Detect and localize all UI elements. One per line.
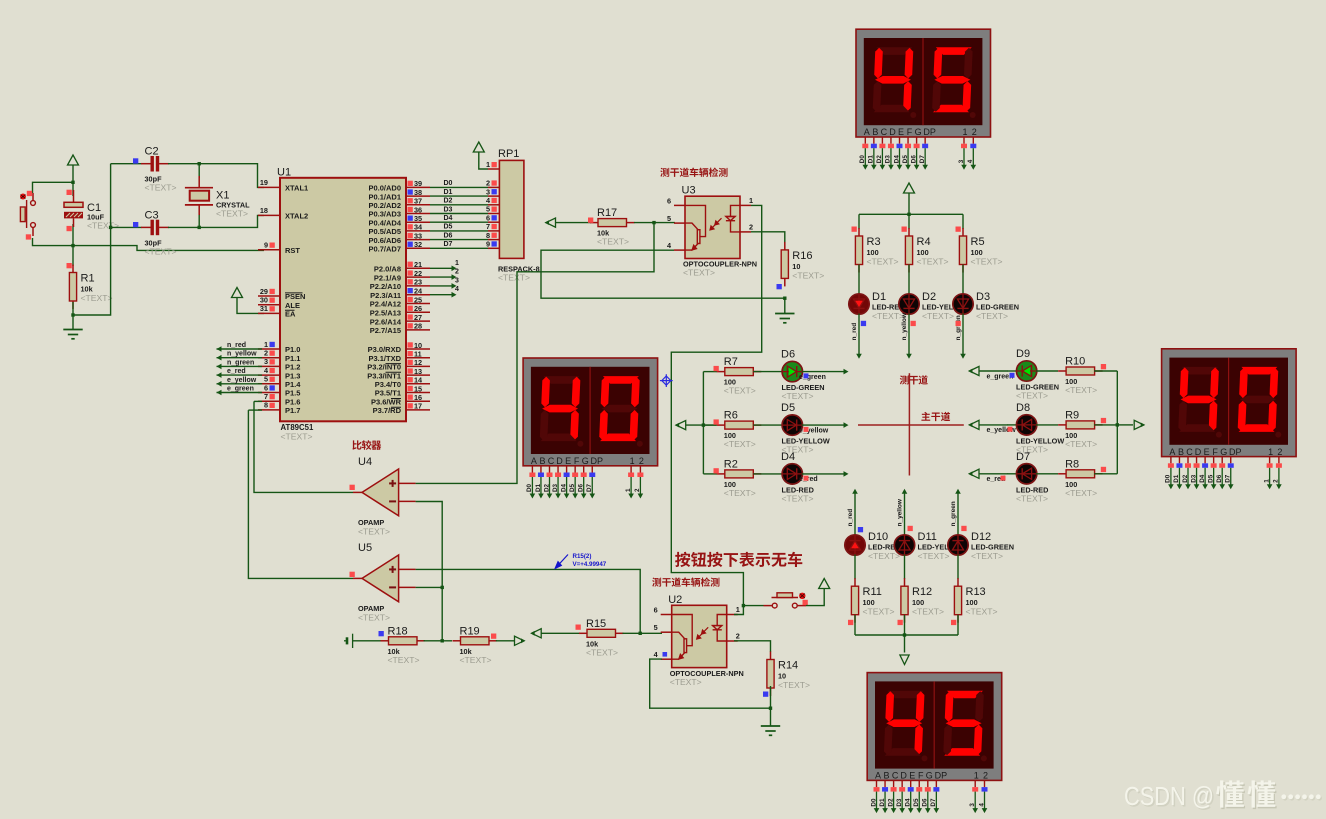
svg-text:2: 2 xyxy=(634,488,641,492)
wire U3 pin4 to ground rail xyxy=(541,250,785,313)
wire R6 to D5 xyxy=(753,424,783,426)
svg-text:2: 2 xyxy=(1273,479,1280,483)
svg-text:1: 1 xyxy=(749,196,753,205)
svg-text:<TEXT>: <TEXT> xyxy=(216,209,248,219)
svg-text:D4: D4 xyxy=(781,451,795,463)
marker square R13 xyxy=(951,620,956,625)
wire R5 to D3 xyxy=(962,265,964,296)
wires P2.0-P2.3 digit select 1-4 xyxy=(430,267,452,269)
svg-text:F: F xyxy=(907,127,913,137)
svg-text:n_red: n_red xyxy=(847,509,854,527)
marker square R16 xyxy=(777,284,782,289)
wire cell to R18 xyxy=(353,640,381,642)
bus wires U1 P0 to RP1 (D0-D7) xyxy=(430,186,488,188)
svg-text:24: 24 xyxy=(414,287,423,296)
svg-text:D2: D2 xyxy=(444,198,453,205)
ground arrow (south rail) xyxy=(904,635,906,653)
svg-text:D1: D1 xyxy=(444,189,453,196)
svg-text:R15: R15 xyxy=(586,618,606,630)
inter-sheet arrow (left) for R15 xyxy=(532,629,542,638)
svg-text:D2: D2 xyxy=(543,483,550,492)
svg-text:25: 25 xyxy=(414,295,422,304)
svg-text:R8: R8 xyxy=(1065,458,1079,470)
svg-text:n_yellow: n_yellow xyxy=(897,498,904,526)
svg-text:e_green: e_green xyxy=(227,386,254,393)
wire D3 to net arrow n_green xyxy=(962,314,964,355)
svg-text:D4: D4 xyxy=(560,483,567,492)
svg-text:R7: R7 xyxy=(724,356,738,368)
resistor R6 100 xyxy=(717,424,725,426)
marker square R8 xyxy=(1101,467,1106,472)
svg-text:2: 2 xyxy=(749,222,753,231)
svg-text:XTAL1: XTAL1 xyxy=(285,184,308,193)
wire U4- to U5- to R18/R19 node xyxy=(416,502,443,641)
wire bus to R6 xyxy=(703,424,717,426)
wire R14 bottom to rail xyxy=(770,686,772,708)
capacitor C2 30pF xyxy=(111,163,142,165)
LED D2 LED-YELLOW xyxy=(899,294,919,314)
svg-text:17: 17 xyxy=(414,402,422,411)
svg-text:1: 1 xyxy=(962,127,967,137)
wire D12 to R13 xyxy=(957,555,959,580)
wire R2 to D4 xyxy=(753,473,783,475)
svg-text:<TEXT>: <TEXT> xyxy=(971,257,1003,267)
svg-text:P0.4/AD4: P0.4/AD4 xyxy=(368,218,401,227)
svg-text:<TEXT>: <TEXT> xyxy=(782,391,814,401)
svg-text:D5: D5 xyxy=(913,798,920,807)
label side-road (Chinese) xyxy=(900,375,928,384)
wire R18 to R19 xyxy=(424,640,453,642)
svg-text:D2: D2 xyxy=(1182,474,1189,483)
LED D3 LED-GREEN xyxy=(953,294,973,314)
push button RESET (left) xyxy=(20,193,35,236)
wire R3 to D1 xyxy=(858,265,860,296)
svg-text:28: 28 xyxy=(414,322,422,331)
U1 right pins xyxy=(406,187,430,410)
svg-text:D0: D0 xyxy=(859,155,866,164)
svg-text:e_green: e_green xyxy=(987,373,1014,380)
svg-text:P3.0/RXD: P3.0/RXD xyxy=(368,345,402,354)
optocoupler U3 xyxy=(685,196,740,258)
svg-text:XTAL2: XTAL2 xyxy=(285,212,308,221)
svg-text:26: 26 xyxy=(414,304,422,313)
wire R9 to east bus xyxy=(1094,424,1117,426)
svg-text:D7: D7 xyxy=(1016,451,1030,463)
svg-text:1: 1 xyxy=(455,260,459,267)
marker square R4 xyxy=(902,227,907,232)
7-segment display west 40 xyxy=(523,358,658,466)
marker squares LED top cluster xyxy=(861,321,866,326)
wire D4 to net arrow e_red xyxy=(802,473,844,475)
net label e_red wire to P1.3 xyxy=(217,374,263,376)
svg-text:DP: DP xyxy=(935,771,948,781)
resistor R9 100 xyxy=(1058,424,1066,426)
svg-text:29: 29 xyxy=(260,287,268,296)
svg-text:D5: D5 xyxy=(1207,474,1214,483)
wire east feed arrow xyxy=(1117,424,1133,426)
svg-text:U5: U5 xyxy=(358,542,372,554)
svg-text:D6: D6 xyxy=(910,155,917,164)
svg-text:7: 7 xyxy=(486,222,490,231)
7-segment display south 45 xyxy=(867,673,1002,781)
LED D1 LED-RED xyxy=(849,294,869,314)
svg-text:P0.0/AD0: P0.0/AD0 xyxy=(368,184,401,193)
svg-text:<TEXT>: <TEXT> xyxy=(388,655,420,665)
LED D4 LED-RED xyxy=(782,464,802,484)
push button no-car (horizontal) xyxy=(764,593,807,608)
svg-text:1: 1 xyxy=(486,160,490,169)
svg-text:R5: R5 xyxy=(971,236,985,248)
svg-text:G: G xyxy=(582,456,589,466)
svg-text:1: 1 xyxy=(625,488,632,492)
marker square R19 xyxy=(491,634,496,639)
svg-text:35: 35 xyxy=(414,214,422,223)
U1 left pins xyxy=(258,187,280,410)
svg-text:<TEXT>: <TEXT> xyxy=(81,293,113,303)
svg-text:R3: R3 xyxy=(867,236,881,248)
wire R7 to D6 xyxy=(753,371,783,373)
inter-sheet arrow (left) for R17 xyxy=(546,218,556,227)
wire arrow to R15 xyxy=(541,632,580,634)
svg-text:D: D xyxy=(1195,447,1202,457)
wire D7 to R8 xyxy=(1036,473,1058,475)
LED D7 LED-RED xyxy=(1007,473,1017,475)
svg-text:P1.5: P1.5 xyxy=(285,389,300,398)
svg-text:16: 16 xyxy=(414,393,422,402)
net label n_green wire to P1.2 xyxy=(217,365,263,367)
svg-text:G: G xyxy=(1220,447,1227,457)
svg-text:<TEXT>: <TEXT> xyxy=(918,551,950,561)
svg-text:P1.0: P1.0 xyxy=(285,345,300,354)
net arrow n_red (up) to D10 xyxy=(852,489,858,494)
svg-text:R13: R13 xyxy=(966,586,986,598)
microcontroller U1 AT89C51 body xyxy=(280,178,406,421)
svg-text:<TEXT>: <TEXT> xyxy=(586,647,618,657)
resistor R1 10k xyxy=(72,265,74,273)
svg-text:D7: D7 xyxy=(919,155,926,164)
svg-text:E: E xyxy=(565,456,571,466)
svg-text:9: 9 xyxy=(486,240,490,249)
marker square R6 xyxy=(714,419,719,424)
svg-text:2: 2 xyxy=(455,269,459,276)
svg-text:34: 34 xyxy=(414,223,423,232)
origin marker (blue) xyxy=(660,374,673,387)
svg-text:n_yellow: n_yellow xyxy=(901,312,908,340)
LED D9 LED-GREEN xyxy=(1007,370,1017,372)
svg-text:E: E xyxy=(1204,447,1210,457)
svg-text:32: 32 xyxy=(414,240,422,249)
svg-text:4: 4 xyxy=(455,286,459,293)
svg-text:31: 31 xyxy=(260,304,268,313)
resistor R15 10k xyxy=(579,632,587,634)
marker square R3 xyxy=(852,227,857,232)
power terminal VCC (top-left) xyxy=(72,165,74,183)
wire U2 pin1 to button xyxy=(734,606,743,615)
svg-text:D3: D3 xyxy=(1190,474,1197,483)
svg-text:<TEXT>: <TEXT> xyxy=(971,551,1003,561)
resistor R2 100 xyxy=(717,473,725,475)
svg-text:7: 7 xyxy=(264,392,268,401)
wire D10 to R11 xyxy=(854,555,856,580)
wire R19 to output arrow xyxy=(496,640,515,642)
svg-text:RP1: RP1 xyxy=(498,148,519,160)
svg-text:D1: D1 xyxy=(879,798,886,807)
svg-text:D1: D1 xyxy=(872,291,886,303)
marker square button2 xyxy=(803,600,808,605)
svg-text:3: 3 xyxy=(958,159,965,163)
svg-text:C3: C3 xyxy=(145,209,159,221)
svg-text:C: C xyxy=(1186,447,1193,457)
svg-text:33: 33 xyxy=(414,231,422,240)
resistor R10 100 xyxy=(1058,370,1066,372)
svg-text:10: 10 xyxy=(414,341,422,350)
label button-no-car (Chinese) xyxy=(675,552,802,567)
svg-text:ALE: ALE xyxy=(285,301,300,310)
net arrow n_yellow (up) to D11 xyxy=(902,489,908,494)
svg-text:D: D xyxy=(556,456,563,466)
wire U5- input xyxy=(416,586,443,588)
svg-text:1: 1 xyxy=(630,456,635,466)
resistor R8 100 xyxy=(1058,473,1066,475)
svg-text:EA: EA xyxy=(285,310,296,319)
svg-text:P2.0/A8: P2.0/A8 xyxy=(374,265,401,274)
LED D12 LED-GREEN xyxy=(948,535,968,555)
U1 PSEN/EA overlines xyxy=(285,293,303,310)
svg-text:5: 5 xyxy=(264,375,268,384)
resistor R18 10k xyxy=(381,640,389,642)
svg-text:<TEXT>: <TEXT> xyxy=(1065,439,1097,449)
wire reset-top rail xyxy=(33,182,75,193)
svg-text:RST: RST xyxy=(285,246,300,255)
marker square R7 xyxy=(714,366,719,371)
svg-text:R12: R12 xyxy=(912,586,932,598)
svg-text:<TEXT>: <TEXT> xyxy=(922,311,954,321)
svg-text:D9: D9 xyxy=(1016,348,1030,360)
svg-text:R1: R1 xyxy=(81,273,95,285)
ground symbol (U2/R14) xyxy=(761,726,780,735)
svg-text:6: 6 xyxy=(654,606,658,615)
resistor R16 10 xyxy=(784,242,786,250)
svg-text:D3: D3 xyxy=(896,798,903,807)
svg-text:1: 1 xyxy=(264,340,268,349)
marker square R14 xyxy=(763,692,768,697)
svg-text:A: A xyxy=(531,456,537,466)
button red actuator dot 2 xyxy=(799,593,805,599)
svg-text:D5: D5 xyxy=(902,155,909,164)
svg-text:D7: D7 xyxy=(586,483,593,492)
svg-text:<TEXT>: <TEXT> xyxy=(1065,488,1097,498)
svg-text:P2.1/A9: P2.1/A9 xyxy=(374,273,401,282)
svg-text:D5: D5 xyxy=(444,224,453,231)
marker square R9 xyxy=(1101,418,1106,423)
U1 INT0/INT1/WR/RD overlines xyxy=(386,364,402,408)
net label e_green wire to P1.5 xyxy=(217,392,263,394)
svg-text:<TEXT>: <TEXT> xyxy=(145,246,177,256)
wire U2 pin2 to R14 xyxy=(734,641,771,652)
svg-text:5: 5 xyxy=(486,205,490,214)
ground symbol (U3/R16) xyxy=(775,314,794,323)
svg-text:D4: D4 xyxy=(905,798,912,807)
svg-text:D: D xyxy=(900,771,907,781)
svg-text:D4: D4 xyxy=(1199,474,1206,483)
svg-text:1: 1 xyxy=(736,605,740,614)
marker square R17 xyxy=(588,218,593,223)
svg-text:8: 8 xyxy=(486,231,490,240)
svg-text:DP: DP xyxy=(590,456,603,466)
svg-text:<TEXT>: <TEXT> xyxy=(670,677,702,687)
svg-text:9: 9 xyxy=(264,241,268,250)
svg-text:DP: DP xyxy=(1229,447,1242,457)
wire C3 to XTAL2 xyxy=(168,215,264,227)
LED D11 LED-YELLOW xyxy=(894,535,914,555)
svg-text:27: 27 xyxy=(414,313,422,322)
svg-text:3: 3 xyxy=(486,187,490,196)
svg-text:D7: D7 xyxy=(444,241,453,248)
svg-text:<TEXT>: <TEXT> xyxy=(966,607,998,617)
marker square C3 xyxy=(133,222,138,227)
svg-text:e_yellow: e_yellow xyxy=(227,377,257,384)
svg-text:C: C xyxy=(881,127,888,137)
svg-text:V=+4.99947: V=+4.99947 xyxy=(573,561,607,568)
resistor R19 10k xyxy=(453,640,461,642)
svg-text:<TEXT>: <TEXT> xyxy=(460,655,492,665)
svg-text:P0.5/AD5: P0.5/AD5 xyxy=(368,227,401,236)
wire R11 to south rail xyxy=(854,615,856,635)
svg-text:D3: D3 xyxy=(444,206,453,213)
svg-text:3: 3 xyxy=(264,357,268,366)
svg-text:D: D xyxy=(889,127,896,137)
resistor R13 100 xyxy=(957,578,959,586)
label vehicle-detect bottom (Chinese) xyxy=(652,577,719,586)
svg-text:38: 38 xyxy=(414,188,422,197)
ground symbol (reset) xyxy=(63,330,82,339)
wire D2 to net arrow n_yellow xyxy=(908,314,910,355)
marker squares LED bottom cluster xyxy=(858,527,863,532)
svg-text:P1.7: P1.7 xyxy=(285,406,300,415)
svg-text:D1: D1 xyxy=(535,483,542,492)
svg-text:<TEXT>: <TEXT> xyxy=(1016,391,1048,401)
resistor R7 100 xyxy=(717,371,725,373)
svg-text:R6: R6 xyxy=(724,410,738,422)
svg-text:D2: D2 xyxy=(922,291,936,303)
marker squares C1 xyxy=(67,190,72,195)
svg-text:23: 23 xyxy=(414,278,422,287)
wire R8 to east bus xyxy=(1094,473,1117,475)
svg-text:D5: D5 xyxy=(781,402,795,414)
svg-text:P0.7/AD7: P0.7/AD7 xyxy=(368,245,401,254)
svg-text:P2.3/A11: P2.3/A11 xyxy=(370,291,401,300)
svg-text:A: A xyxy=(864,127,870,137)
svg-text:D6: D6 xyxy=(444,232,453,239)
svg-text:n_green: n_green xyxy=(227,359,254,366)
svg-text:<TEXT>: <TEXT> xyxy=(1016,493,1048,503)
svg-text:R10: R10 xyxy=(1065,356,1085,368)
svg-text:11: 11 xyxy=(414,350,422,359)
svg-text:P0.6/AD6: P0.6/AD6 xyxy=(368,236,401,245)
RP1 pins xyxy=(488,169,499,248)
svg-text:C: C xyxy=(892,771,899,781)
svg-text:P0.3/AD3: P0.3/AD3 xyxy=(368,210,401,219)
net label e_yellow wire to P1.4 xyxy=(217,383,263,385)
svg-text:D3: D3 xyxy=(885,155,892,164)
svg-text:37: 37 xyxy=(414,197,422,206)
svg-text:39: 39 xyxy=(414,179,422,188)
net arrow e_yellow east xyxy=(970,420,980,429)
wire R17 to U3 pin5 xyxy=(634,222,675,224)
svg-text:D6: D6 xyxy=(781,349,795,361)
svg-text:P1.1: P1.1 xyxy=(285,354,300,363)
svg-text:P1.2: P1.2 xyxy=(285,363,300,372)
wire west bus xyxy=(702,372,704,474)
marker square R12 xyxy=(898,620,903,625)
svg-text:D7: D7 xyxy=(1225,474,1232,483)
svg-text:U4: U4 xyxy=(358,456,372,468)
svg-text:8: 8 xyxy=(264,401,268,410)
svg-text:R15(2): R15(2) xyxy=(573,553,592,560)
svg-text:P2.7/A15: P2.7/A15 xyxy=(370,326,401,335)
svg-text:U3: U3 xyxy=(682,185,696,197)
svg-text:<TEXT>: <TEXT> xyxy=(683,268,715,278)
svg-text:D7: D7 xyxy=(930,798,937,807)
wire R12 to south rail xyxy=(904,615,906,635)
svg-text:P0.1/AD1: P0.1/AD1 xyxy=(368,192,401,201)
svg-text:19: 19 xyxy=(260,178,268,187)
svg-text:D0: D0 xyxy=(870,798,877,807)
svg-text:P2.4/A12: P2.4/A12 xyxy=(370,300,401,309)
power terminal for EA pin xyxy=(237,297,264,313)
resistor R17 10k xyxy=(590,222,598,224)
wire R4 to D2 xyxy=(908,265,910,296)
svg-text:36: 36 xyxy=(414,205,422,214)
wire rail to R3 xyxy=(858,214,860,229)
svg-text:R9: R9 xyxy=(1065,409,1079,421)
wire R15 to U2 pin5 xyxy=(623,632,663,634)
LED D8 LED-YELLOW xyxy=(1007,424,1017,426)
svg-text:18: 18 xyxy=(260,206,268,215)
svg-text:G: G xyxy=(926,771,933,781)
svg-text:R11: R11 xyxy=(863,586,882,598)
svg-text:3: 3 xyxy=(455,277,459,284)
power terminal (north LEDs) xyxy=(904,183,915,193)
svg-text:22: 22 xyxy=(414,269,422,278)
svg-text:R4: R4 xyxy=(917,236,931,248)
svg-text:e_red: e_red xyxy=(227,368,246,375)
svg-text:2: 2 xyxy=(264,349,268,358)
svg-text:A: A xyxy=(875,771,881,781)
resistor R5 100 xyxy=(962,228,964,236)
svg-text:D1: D1 xyxy=(868,155,875,164)
svg-text:6: 6 xyxy=(667,196,671,205)
svg-text:<TEXT>: <TEXT> xyxy=(145,183,177,193)
svg-text:n_yellow: n_yellow xyxy=(227,351,257,358)
svg-text:<TEXT>: <TEXT> xyxy=(976,311,1008,321)
svg-text:R14: R14 xyxy=(778,660,798,672)
svg-text:D2: D2 xyxy=(876,155,883,164)
svg-text:F: F xyxy=(574,456,580,466)
svg-text:13: 13 xyxy=(414,367,422,376)
capacitor C1 10uF (electrolytic) xyxy=(73,190,75,202)
wire U2 pin4 to ground rail xyxy=(650,659,771,726)
svg-text:12: 12 xyxy=(414,358,422,367)
marker square U2 pin4 xyxy=(663,652,668,657)
svg-text:CSDN @: CSDN @ xyxy=(1124,783,1214,811)
net arrow n_green (up) to D12 xyxy=(955,489,961,494)
svg-text:F: F xyxy=(918,771,924,781)
LED D10 LED-RED xyxy=(845,535,865,555)
capacitor C3 30pF xyxy=(111,226,142,228)
label comparator (Chinese) xyxy=(352,440,381,450)
wire arrow to R17 xyxy=(556,222,592,224)
